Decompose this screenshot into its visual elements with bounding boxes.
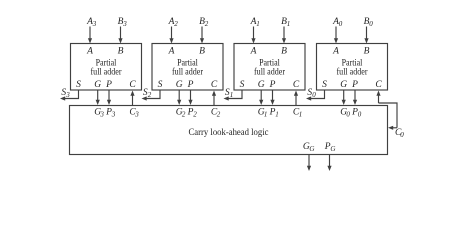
partial full adder U0 xyxy=(317,44,388,91)
wire G1 xyxy=(259,90,263,105)
pin C of U2 xyxy=(211,80,218,90)
wire B2 input xyxy=(200,27,204,44)
svg-text:G: G xyxy=(176,80,183,90)
node label PG xyxy=(324,142,336,153)
wire S3 output xyxy=(60,90,79,101)
svg-text:B: B xyxy=(281,47,287,57)
partial full adder U2 xyxy=(152,44,223,91)
input label A1 xyxy=(250,17,260,28)
svg-text:B: B xyxy=(199,47,205,57)
pin S of U1 xyxy=(240,80,245,90)
pin B of U1 xyxy=(281,47,287,57)
wire C0 into carry look-ahead logic xyxy=(388,126,397,130)
wire C1 carry to U1 xyxy=(294,91,298,106)
input label A3 xyxy=(86,17,97,28)
svg-text:P: P xyxy=(351,80,358,90)
svg-text:G: G xyxy=(330,145,335,153)
node label P2 xyxy=(187,107,198,118)
wire G0 xyxy=(342,90,346,105)
svg-text:2: 2 xyxy=(148,91,152,99)
svg-text:C: C xyxy=(375,80,382,90)
pin G of U2 xyxy=(176,80,183,90)
wire P3 xyxy=(107,90,111,105)
pin C of U3 xyxy=(129,80,136,90)
wire B0 input xyxy=(364,27,368,44)
svg-text:C: C xyxy=(129,80,136,90)
node label P1 xyxy=(269,107,279,118)
svg-text:full adder: full adder xyxy=(172,67,204,78)
pin C of U0 xyxy=(375,80,382,90)
input label B1 xyxy=(281,17,290,28)
svg-text:1: 1 xyxy=(230,91,234,99)
wire C0 input to U0 xyxy=(376,91,397,128)
output label S1 xyxy=(225,88,233,99)
svg-text:3: 3 xyxy=(65,91,70,99)
svg-text:0: 0 xyxy=(346,110,350,118)
svg-text:1: 1 xyxy=(264,110,268,118)
pin S of U2 xyxy=(158,80,163,90)
svg-text:3: 3 xyxy=(92,20,97,28)
node label G3 xyxy=(94,107,104,118)
pin B of U2 xyxy=(199,47,205,57)
svg-text:1: 1 xyxy=(256,20,260,28)
svg-text:0: 0 xyxy=(369,20,373,28)
wire P0 xyxy=(353,90,357,105)
node label GG xyxy=(303,142,315,153)
pin A of U3 xyxy=(86,47,93,57)
svg-text:S: S xyxy=(158,80,163,90)
svg-text:A: A xyxy=(86,47,93,57)
wire P2 xyxy=(188,90,192,105)
svg-text:P: P xyxy=(105,80,112,90)
svg-text:B: B xyxy=(364,47,370,57)
svg-text:2: 2 xyxy=(217,110,221,118)
wire A2 input xyxy=(169,27,173,44)
svg-text:Carry look-ahead logic: Carry look-ahead logic xyxy=(189,128,269,138)
svg-text:B: B xyxy=(118,47,124,57)
wire S0 output xyxy=(306,90,325,101)
pin P of U3 xyxy=(105,80,112,90)
wire P1 xyxy=(270,90,274,105)
svg-text:P: P xyxy=(269,80,276,90)
svg-text:3: 3 xyxy=(134,110,139,118)
svg-text:2: 2 xyxy=(182,110,186,118)
pin B of U3 xyxy=(118,47,124,57)
wire C2 carry to U2 xyxy=(212,91,216,106)
svg-text:1: 1 xyxy=(275,110,279,118)
node label C2 xyxy=(211,107,221,118)
pin A of U2 xyxy=(168,47,175,57)
pin S of U0 xyxy=(322,80,327,90)
node label C1 xyxy=(293,107,302,118)
pin G of U1 xyxy=(258,80,265,90)
pin G of U0 xyxy=(340,80,347,90)
pin C of U1 xyxy=(293,80,300,90)
wire S1 output xyxy=(224,90,243,101)
svg-text:full adder: full adder xyxy=(254,67,286,78)
svg-text:S: S xyxy=(322,80,327,90)
node label C3 xyxy=(129,107,139,118)
pin P of U2 xyxy=(187,80,194,90)
pin P of U0 xyxy=(351,80,358,90)
svg-text:3: 3 xyxy=(122,20,127,28)
wire C3 carry to U3 xyxy=(130,91,134,106)
wire A1 input xyxy=(251,27,255,44)
svg-text:C: C xyxy=(211,80,218,90)
input label B3 xyxy=(118,17,128,28)
svg-text:S: S xyxy=(240,80,245,90)
svg-text:S: S xyxy=(76,80,81,90)
wire G3 xyxy=(96,90,100,105)
svg-text:G: G xyxy=(258,80,265,90)
svg-text:C: C xyxy=(293,80,300,90)
svg-text:P: P xyxy=(187,80,194,90)
input label A0 xyxy=(332,17,343,28)
svg-text:2: 2 xyxy=(205,20,209,28)
input label A2 xyxy=(168,17,179,28)
svg-text:A: A xyxy=(332,47,339,57)
svg-text:0: 0 xyxy=(312,91,316,99)
wire GG output xyxy=(307,155,311,172)
svg-text:full adder: full adder xyxy=(337,67,369,78)
pin P of U1 xyxy=(269,80,276,90)
pin A of U0 xyxy=(332,47,339,57)
svg-text:G: G xyxy=(309,145,314,153)
wire B1 input xyxy=(282,27,286,44)
carry look-ahead logic U5 xyxy=(70,106,388,155)
svg-text:1: 1 xyxy=(287,20,291,28)
wire G2 xyxy=(177,90,181,105)
svg-text:A: A xyxy=(168,47,175,57)
output label S0 xyxy=(307,88,316,99)
wire A0 input xyxy=(334,27,338,44)
output label S3 xyxy=(61,88,70,99)
wire B3 input xyxy=(118,27,122,44)
svg-text:A: A xyxy=(250,47,257,57)
pin G of U3 xyxy=(94,80,101,90)
partial full adder U3 xyxy=(71,44,142,91)
input label B2 xyxy=(199,17,209,28)
node label G0 xyxy=(340,107,350,118)
pin B of U0 xyxy=(364,47,370,57)
svg-text:G: G xyxy=(340,80,347,90)
svg-text:G: G xyxy=(94,80,101,90)
svg-text:3: 3 xyxy=(111,110,116,118)
svg-text:3: 3 xyxy=(99,110,104,118)
pin S of U3 xyxy=(76,80,81,90)
svg-text:2: 2 xyxy=(193,110,197,118)
node label G2 xyxy=(176,107,186,118)
svg-text:full adder: full adder xyxy=(91,67,123,78)
node label G1 xyxy=(258,107,268,118)
node label P3 xyxy=(105,107,116,118)
svg-text:0: 0 xyxy=(358,110,362,118)
partial full adder U1 xyxy=(234,44,305,91)
wire S2 output xyxy=(142,90,161,101)
input label B0 xyxy=(364,17,374,28)
output label S2 xyxy=(143,88,152,99)
svg-text:2: 2 xyxy=(174,20,178,28)
wire PG output xyxy=(327,155,331,172)
svg-text:1: 1 xyxy=(299,110,303,118)
wire A3 input xyxy=(88,27,92,44)
node label P0 xyxy=(351,107,362,118)
input label C0 xyxy=(395,128,404,139)
pin A of U1 xyxy=(250,47,257,57)
svg-text:0: 0 xyxy=(400,131,404,139)
svg-text:0: 0 xyxy=(339,20,343,28)
